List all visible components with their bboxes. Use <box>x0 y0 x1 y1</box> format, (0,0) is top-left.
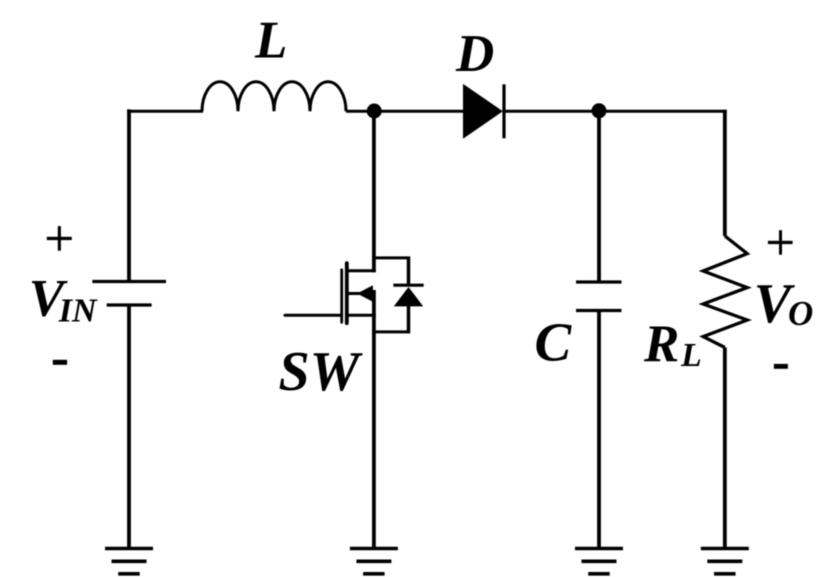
body diode cathode bar <box>393 284 423 287</box>
wire right vertical from corner to resistor RL top <box>723 110 727 236</box>
node B junction dot (output node) <box>592 103 607 118</box>
transistor SW drain tap <box>347 269 376 272</box>
ground symbol under RL <box>701 549 749 574</box>
ground symbol under SW <box>350 549 398 574</box>
svg-text:L: L <box>254 12 287 70</box>
svg-text:L: L <box>680 337 702 374</box>
transistor SW body arrow line <box>347 292 362 295</box>
transistor SW gate lead wire <box>285 314 342 317</box>
battery VIN top plate <box>92 280 166 283</box>
wire body-diode branch bottom <box>407 305 411 333</box>
capacitor C top plate <box>576 280 622 283</box>
wire from diode cathode to output corner <box>504 110 727 113</box>
wire left vertical from corner down to Vin battery top <box>127 109 131 281</box>
wire capacitor bottom vertical to ground <box>597 311 601 549</box>
wire from inductor to diode anode <box>346 110 463 113</box>
battery VIN bottom plate <box>107 303 152 306</box>
svg-text:O: O <box>788 294 813 333</box>
label VIN plus sign <box>47 226 72 251</box>
ground symbol under C <box>575 549 623 574</box>
body diode triangle <box>394 287 423 306</box>
wire Vin bottom vertical to ground <box>127 305 131 549</box>
wire switch-node vertical down to MOSFET drain <box>372 111 376 272</box>
svg-text:R: R <box>643 315 679 373</box>
wire top-left horizontal from Vin to inductor <box>127 110 203 113</box>
svg-text:D: D <box>455 25 494 83</box>
transistor SW channel bar <box>345 263 349 323</box>
ground symbol under VIN <box>105 549 153 574</box>
wire MOSFET source vertical down to ground <box>372 290 376 549</box>
svg-text:SW: SW <box>279 341 364 403</box>
label VIN minus sign <box>53 360 67 365</box>
diode D triangle <box>464 85 503 138</box>
svg-text:IN: IN <box>58 293 98 330</box>
node A junction dot (switch node) <box>367 104 382 119</box>
wire resistor bottom vertical to ground <box>723 348 727 549</box>
capacitor C bottom plate <box>576 309 622 312</box>
transistor SW source tap <box>347 314 376 317</box>
wire output node vertical down to capacitor C <box>597 111 601 282</box>
diode D cathode bar <box>502 84 505 138</box>
svg-text:C: C <box>535 311 573 372</box>
wire body-diode branch top <box>372 256 409 259</box>
transistor SW body arrow head <box>357 285 373 301</box>
resistor RL zigzag <box>703 236 747 348</box>
inductor L <box>202 82 346 112</box>
transistor SW gate bar <box>340 270 343 323</box>
label VO plus sign <box>768 230 793 255</box>
label VO minus sign <box>774 364 788 369</box>
